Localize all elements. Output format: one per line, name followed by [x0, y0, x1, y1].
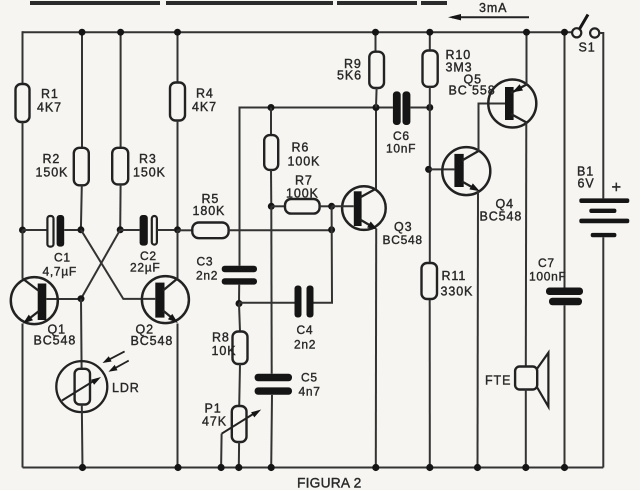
- wire: R7 left lead: [271, 205, 285, 207]
- svg-text:5K6: 5K6: [337, 69, 362, 83]
- node K: bus / R9 / Q3 collector junction: [373, 104, 380, 111]
- wire: cross-coupling node B to Q2 base: [81, 230, 155, 299]
- wire: R3 top lead: [120, 32, 122, 148]
- wire: speaker bottom lead: [525, 390, 527, 468]
- svg-text:4K7: 4K7: [37, 101, 62, 115]
- svg-text:47K: 47K: [202, 415, 227, 429]
- junction: R11 on ground rail: [426, 464, 433, 471]
- wire: R9 bottom lead: [375, 88, 378, 108]
- resistor R9: [369, 52, 384, 88]
- node H: R6 / R7 / C5 junction: [268, 203, 275, 210]
- svg-text:Q3: Q3: [394, 220, 412, 234]
- resistor R4: [170, 83, 185, 121]
- svg-text:3mA: 3mA: [479, 1, 507, 15]
- node E: Q1 base / LDR junction: [78, 295, 85, 302]
- junction: Q4 emitter on ground rail: [474, 464, 481, 471]
- wire: Q3 collector lead: [375, 108, 377, 190]
- wire: C5 top lead from node H: [270, 206, 272, 373]
- svg-text:4K7: 4K7: [192, 100, 217, 114]
- node F: R5 / Q3-base vertical junction: [328, 226, 335, 233]
- LDR (photoresistor): [56, 351, 139, 412]
- transistor Q2 BC548: [131, 276, 189, 348]
- wire: battery bottom lead: [602, 237, 604, 467]
- wire: R5 right lead to node F: [229, 229, 332, 231]
- wire: R10 top lead: [429, 32, 431, 50]
- resistor R1: [16, 84, 30, 122]
- resistor R10: [423, 51, 438, 87]
- wire: R8 bottom lead: [238, 364, 241, 406]
- junction: P1 wiper on ground rail: [218, 464, 225, 471]
- node L: C6 right / R10 junction: [426, 104, 433, 111]
- wire: R1 top lead (left rail upper): [22, 31, 24, 84]
- resistor R3: [112, 148, 128, 185]
- node B: R2 / C1 right / cross-coupling junction: [77, 226, 84, 233]
- wire: Q4 base wire: [429, 168, 455, 170]
- wire: R1 bottom lead to node A: [22, 122, 24, 230]
- junction: speaker on ground rail: [522, 464, 529, 471]
- svg-text:100nF: 100nF: [529, 270, 567, 284]
- junction: R2 on top rail: [79, 29, 86, 36]
- wire: mid horizontal bus (C3 top to C6 left): [240, 107, 393, 109]
- capacitor C3 (2n2): [196, 255, 257, 304]
- wire: R6 bottom lead to node H: [270, 170, 272, 206]
- transistor Q5 BC558: [449, 73, 537, 128]
- wire: P1 bottom lead: [238, 442, 240, 468]
- capacitor C4 (2n2): [294, 286, 316, 352]
- junction: Q5 emitter on top rail: [523, 29, 530, 36]
- svg-text:FIGURA 2: FIGURA 2: [297, 476, 361, 490]
- svg-text:R1: R1: [41, 87, 59, 101]
- junction: R4 on top rail: [174, 29, 181, 36]
- svg-text:180K: 180K: [193, 204, 226, 218]
- wire: R7 right lead to node I: [320, 205, 332, 207]
- svg-text:10K: 10K: [212, 344, 237, 358]
- svg-text:6V: 6V: [578, 177, 595, 191]
- svg-text:R6: R6: [292, 141, 310, 155]
- wire: node J to C4 left: [239, 302, 295, 304]
- node A: Q1 collector / C1 left junction: [19, 227, 26, 234]
- resistor R11: [422, 263, 438, 299]
- resistor R2: [74, 148, 89, 186]
- wire: R4 bottom lead to node D: [177, 121, 179, 230]
- capacitor C7 (100nF): [529, 256, 583, 305]
- resistor R8: [233, 332, 248, 365]
- node M: Q4 base junction: [425, 166, 432, 173]
- current arrow 3mA: [448, 1, 529, 20]
- wire: R5 left lead: [178, 229, 193, 231]
- svg-text:BC548: BC548: [480, 210, 523, 224]
- wire: Q2 emitter lead: [177, 324, 179, 468]
- wire: Q1 emitter lead (left rail lower): [22, 324, 24, 468]
- node C: R3 / C2 left / cross-coupling junction: [117, 226, 124, 233]
- capacitor C1 (4,7uF electrolytic): [23, 215, 78, 279]
- svg-text:C4: C4: [297, 323, 314, 337]
- svg-text:C3: C3: [197, 255, 214, 269]
- junction: C7 on top rail: [561, 29, 568, 36]
- capacitor C2 (22uF electrolytic): [120, 215, 174, 275]
- svg-text:10nF: 10nF: [386, 142, 416, 156]
- svg-text:P1: P1: [205, 402, 222, 416]
- svg-text:100K: 100K: [288, 155, 321, 169]
- wire: Q4 emitter lead: [477, 191, 480, 468]
- wire: Q2 collector lead: [177, 230, 179, 279]
- junction: C7 on ground rail: [561, 464, 568, 471]
- wire: Q4 collector to Q5 base: [479, 104, 506, 152]
- svg-text:BC548: BC548: [131, 334, 174, 348]
- wire: C5 bottom lead: [270, 395, 273, 468]
- svg-text:330K: 330K: [441, 285, 474, 299]
- svg-text:+: +: [612, 179, 622, 197]
- junction: R3 on top rail: [117, 29, 124, 36]
- svg-text:R7: R7: [295, 174, 313, 188]
- svg-text:4n7: 4n7: [299, 385, 321, 399]
- svg-text:R11: R11: [442, 269, 467, 283]
- transistor Q3 BC548: [342, 186, 423, 247]
- svg-text:BC548: BC548: [383, 233, 423, 247]
- svg-text:150K: 150K: [133, 166, 166, 180]
- svg-text:R4: R4: [196, 87, 214, 101]
- svg-text:BC548: BC548: [34, 334, 77, 348]
- capacitor C6 (10nF): [386, 91, 430, 155]
- svg-text:22µF: 22µF: [130, 261, 160, 275]
- wire: Q1 base wire: [46, 298, 81, 300]
- wire: C7 top lead from top rail: [564, 32, 566, 287]
- svg-text:2n2: 2n2: [196, 269, 218, 283]
- wire: Q3 base vertical (node I - node F - C4 right): [314, 206, 333, 302]
- junction: C5 on ground rail: [268, 464, 275, 471]
- svg-text:S1: S1: [579, 41, 596, 55]
- transistor Q1 BC548: [11, 277, 76, 347]
- wire: Q3 base wire: [332, 205, 354, 207]
- wire: R2 bottom lead to node B: [80, 185, 83, 230]
- transistor Q4 BC548: [442, 147, 522, 223]
- junction: Q2 emitter on ground rail: [174, 464, 181, 471]
- svg-text:R2: R2: [43, 152, 61, 166]
- wire: P1 wiper return to ground: [220, 434, 223, 468]
- wire: R4 top lead: [177, 32, 179, 82]
- wire: LDR top lead: [80, 299, 83, 369]
- svg-text:R3: R3: [139, 152, 157, 166]
- wire: Q3 emitter lead: [375, 229, 377, 468]
- capacitor C5 (4n7): [255, 371, 321, 399]
- battery B1 6V: [577, 165, 629, 238]
- junction: Q3 emitter on ground rail: [372, 464, 379, 471]
- svg-text:BC 558: BC 558: [449, 84, 496, 98]
- wire: R10 bottom lead down to R11 (through nodes L and M): [429, 87, 431, 263]
- switch S1: [572, 15, 599, 55]
- wire: C7 bottom lead: [564, 305, 566, 467]
- junction: R10 on top rail: [426, 29, 433, 36]
- wire: S1 to battery top: [599, 33, 603, 198]
- junction: R9 on top rail: [372, 29, 379, 36]
- node D: R4 / C2 right / R5 / Q2 collector junction: [174, 226, 181, 233]
- wire: Q5 emitter lead to top rail: [526, 32, 528, 84]
- potentiometer P1 (47K): [202, 402, 261, 443]
- svg-text:C1: C1: [54, 251, 71, 265]
- svg-text:LDR: LDR: [112, 381, 140, 395]
- wire: LDR bottom lead: [81, 405, 84, 468]
- wire: R11 bottom lead: [429, 299, 431, 468]
- svg-text:FTE: FTE: [485, 374, 511, 388]
- svg-text:100K: 100K: [286, 187, 319, 201]
- wire: cross-coupling node C to Q1 base node: [81, 230, 120, 299]
- wire: R3 bottom lead to node C: [119, 184, 121, 229]
- svg-text:R8: R8: [212, 331, 230, 345]
- speaker FTE: [485, 353, 548, 407]
- wire: R8 top lead: [239, 304, 240, 332]
- wire: R9 top lead: [375, 32, 377, 52]
- junction: P1 on ground rail: [235, 464, 242, 471]
- wire: top supply rail: [23, 31, 573, 33]
- wire: Q1 collector lead: [22, 230, 24, 279]
- wire: R6 top lead: [270, 108, 272, 136]
- svg-text:2n2: 2n2: [294, 338, 316, 352]
- node G: R6 top on bus: [268, 104, 275, 111]
- resistor R6: [264, 135, 278, 170]
- svg-text:C5: C5: [301, 371, 318, 385]
- node J: C3 / C4 / R8 junction: [236, 300, 243, 307]
- svg-text:4,7µF: 4,7µF: [43, 265, 77, 279]
- wire: Q5 collector lead to speaker: [525, 123, 528, 367]
- svg-text:150K: 150K: [36, 166, 69, 180]
- node I: R7 / Q3 base junction: [328, 203, 335, 210]
- wire: bottom ground rail: [23, 467, 604, 469]
- resistor R5: [192, 223, 228, 239]
- resistor R7: [285, 199, 320, 214]
- wire: C3 top lead (vertical from bus corner): [239, 107, 241, 266]
- wire: R2 top lead: [81, 32, 83, 148]
- junction: LDR on ground rail: [79, 464, 86, 471]
- svg-text:C7: C7: [538, 256, 555, 270]
